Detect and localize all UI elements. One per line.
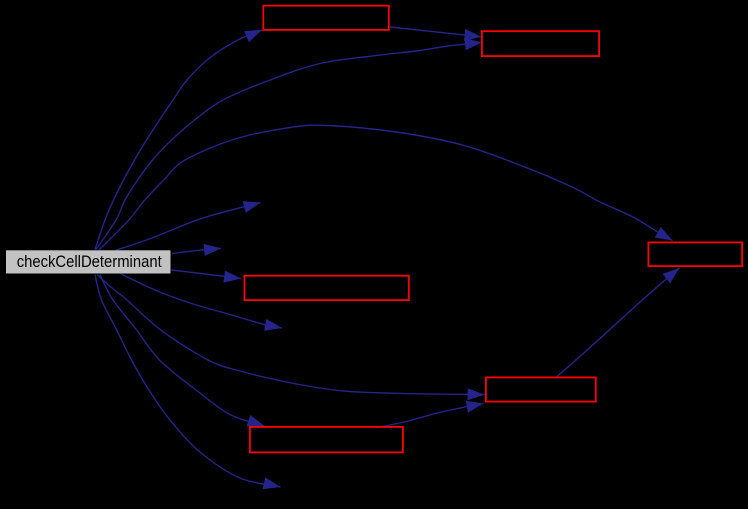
edge main->B4 (long top arc) <box>99 125 673 250</box>
node B5 (lower-right red box) <box>486 377 596 401</box>
node B2 (top-right red box) <box>482 31 599 56</box>
edge B5->B4 <box>557 268 680 377</box>
edge main->B6 <box>100 275 265 427</box>
node B6 (bottom-middle red box) <box>250 427 403 453</box>
edge main->hidden node 2 <box>172 248 221 253</box>
node B1 (top-left red box) <box>263 6 389 30</box>
node main checkCellDeterminant <box>6 250 171 273</box>
edge main->hidden node 4 <box>95 275 281 488</box>
edge main->B1 <box>95 30 262 250</box>
node B3 (middle red box) <box>244 276 408 300</box>
edge main->hidden node 3 <box>122 275 282 329</box>
edge B1->B2 <box>390 27 482 37</box>
edge main->hidden node 1 <box>116 203 261 251</box>
edge main->B3 <box>171 270 241 279</box>
node B4 (right red box) <box>648 242 742 266</box>
edge B6->B5 <box>381 404 483 427</box>
edge main->B2 <box>96 42 482 249</box>
edge main->B5 <box>97 275 485 395</box>
svg-text:checkCellDeterminant: checkCellDeterminant <box>17 253 162 271</box>
